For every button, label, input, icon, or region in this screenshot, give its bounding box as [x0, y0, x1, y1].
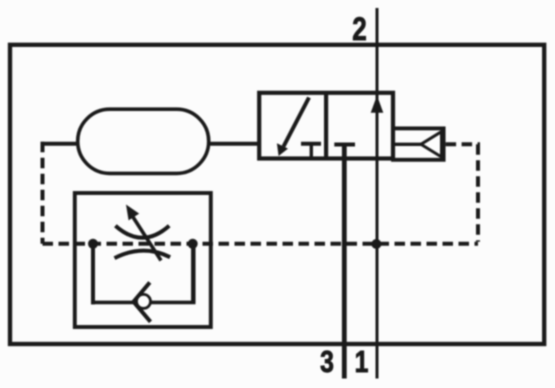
check valve ball [137, 294, 151, 308]
valve divider [324, 93, 328, 159]
valve left diagonal flow arrow [277, 98, 309, 157]
label 2 [352, 11, 367, 47]
bypass bottom left wire [91, 301, 136, 305]
throttle adjust arrow [126, 205, 161, 261]
bypass left vertical wire [91, 244, 95, 305]
accumulator capsule [78, 109, 209, 173]
flow control valve box [75, 193, 211, 327]
pilot actuator triangle [421, 132, 442, 157]
valve right flow arrow up [371, 96, 384, 113]
enclosure box [10, 45, 544, 344]
pilot line main horizontal dashed [43, 242, 479, 246]
wire port2/port1 vertical line [376, 8, 379, 379]
svg-text:3: 3 [320, 344, 334, 378]
wire capsule left stub [41, 142, 78, 146]
svg-text:1: 1 [355, 344, 369, 378]
throttle upper arc [115, 226, 169, 238]
pilot actuator box [393, 128, 444, 159]
wire port3 vertical thick line [342, 145, 347, 379]
pilot line right horizontal dashed [446, 142, 480, 146]
valve right blocked port T [334, 143, 355, 147]
junction dot right [188, 239, 198, 249]
pilot line left vertical dashed [41, 142, 45, 244]
bypass right vertical wire [191, 244, 196, 303]
check valve seat [134, 282, 151, 321]
pilot line right vertical dashed [476, 144, 480, 242]
bypass bottom right wire [151, 301, 196, 305]
junction dot left [88, 239, 98, 249]
wire capsule to valve [209, 142, 260, 146]
valve U1 body [259, 93, 393, 159]
pilot actuator wire [395, 143, 421, 146]
valve left blocked port T [301, 144, 321, 158]
throttle lower arc [115, 251, 171, 258]
label 3 [320, 344, 334, 378]
svg-text:2: 2 [352, 11, 367, 47]
label 1 [355, 344, 369, 378]
junction dot on port1 line [371, 239, 381, 249]
